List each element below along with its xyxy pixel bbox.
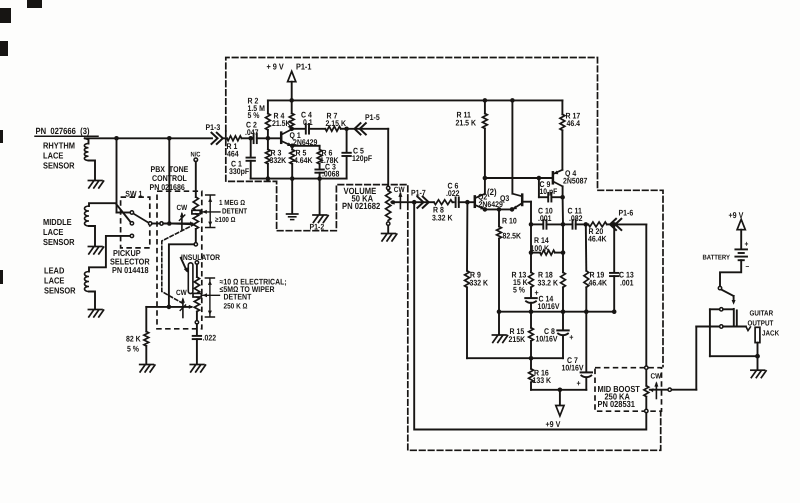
- wire battery negative: [720, 260, 741, 286]
- supply arrow +9V: [288, 71, 296, 100]
- node C11 left: [561, 222, 566, 227]
- label battery plus: [745, 239, 749, 248]
- node C1 branch: [248, 136, 253, 141]
- wire R16 to +9V rail: [531, 382, 586, 390]
- node tone wiper junction: [167, 221, 172, 226]
- capacitor C4: [306, 124, 309, 134]
- label Q1 2N6429: [290, 131, 318, 147]
- label R10 82.5K: [502, 217, 521, 241]
- wire emitter branch: [292, 146, 319, 150]
- svg-text:.001: .001: [620, 278, 634, 287]
- wire R2 to R3: [267, 130, 269, 149]
- wire +9V rail: [268, 99, 563, 101]
- node rail C3: [317, 176, 322, 181]
- label C7 10/16V: [562, 356, 585, 373]
- label C6 .022: [446, 182, 460, 198]
- label battery minus: [746, 262, 750, 271]
- label R11 21.5K: [456, 111, 477, 128]
- label C11 .082: [568, 207, 583, 224]
- capacitor C1: [247, 138, 255, 178]
- svg-text:P1-1: P1-1: [296, 62, 312, 72]
- jack sleeve bracket: [709, 309, 711, 356]
- battery cells: [735, 249, 747, 260]
- jack switch upper terminal: [720, 308, 723, 311]
- scan artifact marks: [0, 0, 42, 284]
- resistor R5: [290, 150, 295, 165]
- node emitter right: [510, 207, 515, 212]
- label R9 332K: [470, 271, 489, 288]
- wire pot to bottom terminal: [195, 229, 197, 243]
- capacitor C3: [315, 164, 323, 179]
- terminal battery switch: [718, 286, 721, 289]
- arrow battery to jack: [721, 290, 735, 305]
- node R11 rail: [483, 98, 488, 103]
- label C9 10pF: [540, 180, 558, 196]
- wire R10 to mid rail: [498, 239, 500, 312]
- label R16 133K: [533, 368, 552, 385]
- ground P1-2: [313, 215, 328, 222]
- svg-text:+ 9 V: + 9 V: [267, 62, 284, 72]
- label C1 330pF: [229, 160, 249, 177]
- node mid rail C13: [612, 309, 617, 314]
- switch SW1 blade: [133, 214, 148, 223]
- label volume 50KA: [342, 186, 380, 211]
- svg-text:215K: 215K: [509, 335, 526, 344]
- capacitor C6: [456, 197, 459, 207]
- label R8 3.32K: [432, 206, 453, 223]
- detent marker 250K: [193, 293, 201, 297]
- node R16 top: [529, 356, 534, 361]
- connector P1-7: [417, 197, 428, 208]
- svg-text:P1-7: P1-7: [411, 189, 426, 198]
- label C13 .001: [619, 271, 634, 288]
- svg-text:+: +: [745, 239, 749, 248]
- arrow CW tone lower: [180, 297, 185, 317]
- svg-text:5 %: 5 %: [248, 111, 261, 120]
- wire N/C to pot: [195, 162, 197, 197]
- wire emitter bus: [485, 208, 512, 210]
- wire C2 to base: [257, 137, 281, 139]
- resistor R1: [227, 136, 242, 141]
- label R14 100K: [531, 236, 550, 253]
- resistor R18: [561, 253, 566, 288]
- svg-text:P1-5: P1-5: [365, 113, 380, 122]
- terminal N/C: [194, 158, 198, 162]
- wire lead to ground: [89, 292, 95, 309]
- svg-text:PN 014418: PN 014418: [112, 265, 149, 275]
- wire lower contact: [696, 326, 746, 328]
- svg-text:RHYTHM: RHYTHM: [43, 141, 75, 151]
- svg-text:SW 1: SW 1: [125, 189, 142, 198]
- wire volume to ground: [387, 225, 389, 232]
- svg-text:P1-3: P1-3: [206, 123, 221, 132]
- transistor Q2: [475, 194, 485, 210]
- svg-text:332K: 332K: [270, 156, 287, 165]
- label detent upper: [222, 207, 248, 216]
- capacitor C2: [254, 134, 257, 144]
- svg-text:464: 464: [227, 150, 239, 159]
- svg-text:120pF: 120pF: [352, 154, 372, 163]
- svg-text:DETENT: DETENT: [224, 293, 252, 302]
- svg-text:10/16V: 10/16V: [538, 302, 561, 311]
- wire tip to node: [757, 343, 759, 357]
- node Q2 base R9: [465, 200, 470, 205]
- supply arrow +9V lower: [556, 406, 564, 416]
- wire +9V stub: [559, 390, 561, 406]
- svg-text:3.32 K: 3.32 K: [432, 213, 453, 222]
- label +9V battery: [729, 210, 744, 220]
- jack tip contact arrow: [746, 327, 751, 331]
- jack tip terminal: [755, 327, 760, 342]
- wire R17 to Q4 emitter: [561, 130, 563, 170]
- svg-text:21.5K: 21.5K: [272, 119, 291, 128]
- node C5 P1-5: [344, 127, 349, 132]
- svg-text:P1-6: P1-6: [619, 209, 634, 218]
- wire R4 to collector: [291, 127, 293, 130]
- svg-text:33.2 K: 33.2 K: [538, 278, 559, 287]
- label P1-2: [310, 223, 325, 232]
- label 10 ohm electrical: [220, 278, 287, 287]
- svg-text:LEAD: LEAD: [44, 266, 64, 276]
- wire P1-6 to boost pot: [614, 224, 646, 366]
- wire Q2 collector: [484, 178, 486, 194]
- svg-text:BATTERY: BATTERY: [703, 255, 731, 262]
- svg-text:0.1: 0.1: [303, 118, 313, 127]
- ground 82K: [140, 365, 155, 372]
- wire node to P1-5: [347, 128, 389, 130]
- node 250K wiper junction: [167, 305, 172, 310]
- terminal boost bottom: [645, 409, 648, 412]
- svg-text:PN 021686: PN 021686: [150, 182, 186, 192]
- svg-text:CW: CW: [651, 371, 662, 380]
- label R17 46.4: [566, 112, 581, 129]
- svg-text:(2): (2): [487, 187, 497, 197]
- wire R5 to rail: [291, 164, 293, 179]
- capacitor C7: [577, 312, 593, 390]
- wiper arrow 1 MEG: [169, 221, 194, 225]
- label lead lace sensor: [44, 266, 76, 296]
- svg-text:OUTPUT: OUTPUT: [748, 319, 774, 328]
- label insulator: [181, 253, 220, 273]
- ground rhythm pickup: [88, 181, 103, 188]
- node +9V branch: [558, 388, 563, 393]
- wire R20 to P1-6: [607, 223, 614, 225]
- ground volume: [382, 234, 397, 241]
- wire R15 to node: [530, 341, 532, 358]
- wire middle to ground: [89, 226, 95, 246]
- wire Q3 collector: [511, 100, 513, 193]
- wire 250K to bottom terminal: [196, 312, 198, 321]
- label detent lower: [224, 293, 252, 302]
- connector P1-5: [355, 123, 366, 134]
- capacitor C8: [557, 312, 573, 359]
- wire R3 to rail: [267, 164, 269, 179]
- wire R7 to node: [341, 128, 347, 130]
- svg-text:+: +: [569, 332, 573, 342]
- label C8 10/16V: [536, 327, 559, 344]
- node R14 right: [561, 250, 566, 255]
- svg-text:–: –: [746, 262, 750, 271]
- label +9V P1-1: [267, 62, 312, 72]
- svg-text:.001: .001: [538, 214, 552, 223]
- svg-text:PN 021682: PN 021682: [342, 201, 380, 211]
- wire R1 to C2: [242, 137, 253, 139]
- svg-text:SENSOR: SENSOR: [43, 161, 75, 171]
- label 82K 5%: [126, 335, 141, 354]
- resistor R13: [529, 253, 534, 288]
- wire collector to C4: [292, 128, 305, 130]
- svg-text:82.5K: 82.5K: [503, 231, 522, 240]
- node mid rail R19: [584, 309, 589, 314]
- supply arrow battery: [737, 219, 745, 248]
- label R6 1.78K: [320, 149, 339, 165]
- node R20 left: [584, 222, 589, 227]
- resistor R15: [529, 312, 534, 341]
- wire R8 to C6: [452, 201, 453, 203]
- label C10 .001: [538, 207, 553, 224]
- wiper mid boost: [649, 388, 668, 392]
- wire wiper to jack: [672, 327, 697, 390]
- resistor 82K: [144, 332, 149, 347]
- label R7 2.15K: [326, 112, 347, 128]
- svg-text:+9 V: +9 V: [546, 419, 561, 429]
- wire switch pole: [152, 223, 160, 225]
- wire Q3 base: [523, 202, 531, 225]
- label C4 0.1: [301, 111, 313, 127]
- terminal boost top: [645, 366, 648, 369]
- label 250 K ohm: [224, 302, 248, 311]
- wire R18 to rail: [562, 287, 564, 311]
- wire 250K top: [196, 264, 198, 277]
- capacitor C11: [563, 220, 586, 229]
- svg-text:2.15 K: 2.15 K: [326, 119, 347, 128]
- label guitar output jack: [748, 309, 780, 338]
- svg-text:21.5 K: 21.5 K: [456, 118, 477, 127]
- svg-text:R 10: R 10: [502, 217, 517, 226]
- capacitor C10: [531, 220, 563, 229]
- wire upper contact: [710, 308, 733, 310]
- wire Q1 ground rail: [251, 178, 347, 180]
- svg-text:4.64K: 4.64K: [294, 156, 313, 165]
- node mid rail R18: [561, 309, 566, 314]
- svg-text:.047: .047: [245, 128, 259, 137]
- label CW boost: [651, 371, 662, 380]
- wire input to switch contact: [117, 138, 131, 212]
- wire boost bottom loop: [414, 202, 646, 429]
- label R3 332K: [270, 149, 287, 165]
- node base bias junction: [266, 136, 271, 141]
- svg-text:133 K: 133 K: [533, 376, 552, 385]
- dimension detent arrow lower: [202, 293, 220, 297]
- tone control dashed box: [157, 191, 202, 329]
- label C2 .047: [245, 121, 259, 137]
- resistor R17: [560, 100, 565, 130]
- label Q2 (2) Q3 2N6429: [478, 187, 510, 209]
- resistor R3: [266, 149, 271, 164]
- node Q1 collector: [289, 127, 294, 132]
- label approx 100 ohm: [215, 215, 236, 224]
- label +9V lower: [546, 419, 561, 429]
- detent marker 1 MEG: [192, 210, 200, 214]
- resistor R4: [289, 100, 294, 128]
- svg-text:100 K: 100 K: [531, 244, 550, 253]
- label P1-3: [206, 123, 221, 132]
- capacitor C9: [539, 178, 563, 202]
- resistor R7: [325, 126, 341, 131]
- resistor R10: [497, 209, 502, 238]
- insulator sleeve: [188, 263, 193, 294]
- resistor R16: [529, 358, 534, 382]
- svg-text:330pF: 330pF: [229, 167, 249, 176]
- node C9 branch: [537, 176, 542, 181]
- label R4 21.5K: [272, 112, 291, 128]
- label rhythm lace sensor: [43, 141, 75, 171]
- label PBX tone control: [150, 164, 189, 192]
- terminal boost wiper: [668, 388, 671, 391]
- label pickup selector: [110, 248, 150, 275]
- svg-text:LACE: LACE: [43, 151, 63, 161]
- arrow CW boost: [654, 381, 658, 398]
- connector P1-3: [212, 133, 223, 144]
- label CW volume: [394, 185, 405, 194]
- wire rail to ground: [498, 312, 500, 335]
- svg-text:MIDDLE: MIDDLE: [43, 217, 72, 227]
- inductor lead pickup coil: [85, 236, 131, 292]
- label R1 464: [227, 142, 239, 159]
- ground middle pickup: [88, 247, 103, 254]
- label CW tone upper: [177, 203, 188, 212]
- jack switch lower terminal: [720, 325, 723, 328]
- node C13 top: [612, 222, 617, 227]
- label N/C: [191, 152, 201, 159]
- label C5 120pF: [352, 147, 372, 163]
- svg-text:SENSOR: SENSOR: [43, 237, 75, 247]
- node jack ground: [755, 354, 760, 359]
- node Q3 rail: [510, 98, 515, 103]
- terminal volume top: [387, 186, 390, 189]
- wire cap to ground: [196, 339, 198, 363]
- capacitor C5: [342, 129, 350, 179]
- wiper volume: [391, 200, 415, 204]
- switch SW1 pole terminal: [149, 222, 152, 225]
- label mid boost: [598, 384, 641, 409]
- wire rail to earth: [291, 179, 293, 214]
- capacitor .022 tone: [193, 336, 201, 339]
- label R18 33.2K: [538, 271, 559, 288]
- label CW tone lower: [176, 288, 187, 297]
- resistor R20: [586, 222, 607, 227]
- label SW 1: [125, 189, 142, 198]
- ground mid rail: [492, 335, 507, 342]
- potentiometer mid boost: [644, 370, 649, 410]
- wire 1MEG bottom to 250K wiper: [169, 244, 194, 307]
- switch SW1 contact 2: [130, 222, 133, 225]
- label .022 tone: [203, 334, 217, 343]
- label C3 .0068: [322, 162, 340, 178]
- terminal 1 MEG bottom: [194, 243, 197, 246]
- switch SW1 output terminal: [160, 222, 163, 225]
- wire C4 to R7: [309, 128, 325, 130]
- wire rhythm to ground: [89, 161, 96, 180]
- potentiometer 250K upper half: [194, 277, 199, 293]
- label P1-6: [619, 209, 634, 218]
- svg-text:.022: .022: [203, 334, 217, 343]
- wire R11 to base node: [484, 129, 486, 179]
- wire rail to P1-2 ground: [319, 179, 321, 214]
- label 1 MEG ohm: [219, 198, 245, 207]
- switch SW1 contact 3: [130, 234, 133, 237]
- capacitor C14: [525, 287, 538, 311]
- svg-text:5 %: 5 %: [127, 345, 140, 354]
- svg-text:.082: .082: [569, 214, 583, 223]
- svg-text:JACK: JACK: [762, 328, 780, 337]
- wire R9 bottom rail: [467, 357, 563, 359]
- gang link dashed line: [162, 224, 195, 303]
- node mid rail C14: [529, 309, 534, 314]
- svg-text:250 K Ω: 250 K Ω: [224, 302, 248, 311]
- wire C6 to Q2 base: [459, 201, 475, 203]
- wire pickup bus: [85, 137, 227, 139]
- label R2 1.5M 5%: [248, 97, 266, 121]
- label P1-7: [411, 189, 426, 198]
- potentiometer 1 MEG upper half: [193, 197, 198, 210]
- svg-text:5 %: 5 %: [513, 286, 526, 295]
- node mid rail R10: [497, 309, 502, 314]
- node Q1 emitter: [290, 144, 295, 149]
- switch SW1 contact 1: [130, 211, 133, 214]
- label middle lace sensor: [43, 217, 75, 247]
- svg-text:1 MEG Ω: 1 MEG Ω: [219, 198, 245, 207]
- svg-text:10/16V: 10/16V: [536, 335, 559, 344]
- node pickup bus to switch branch: [114, 136, 119, 141]
- label C14 10/16V: [538, 294, 561, 311]
- jack switch bars: [734, 309, 737, 327]
- node volume wiper feedback: [412, 200, 417, 205]
- wire switch to tone wiper: [163, 223, 192, 225]
- transistor Q4: [553, 170, 563, 197]
- label R13 15K 5%: [512, 271, 528, 295]
- svg-text:2N5087: 2N5087: [563, 177, 588, 186]
- inductor rhythm pickup coil: [84, 138, 88, 160]
- preamp dashed enclosure left-bottom: [226, 131, 661, 450]
- label 5M to wiper: [220, 285, 275, 294]
- node Q4 collector: [560, 195, 565, 200]
- svg-text:.0068: .0068: [322, 170, 340, 179]
- svg-text:SENSOR: SENSOR: [44, 286, 76, 296]
- label R15 215K: [509, 327, 526, 344]
- node R10 top: [497, 207, 502, 212]
- SW1 dashed box: [121, 197, 150, 248]
- resistor R2: [266, 100, 271, 130]
- node Q4 base line: [483, 176, 488, 181]
- ground Q1 stage: [287, 214, 298, 220]
- svg-text:10/16V: 10/16V: [562, 363, 585, 372]
- ground lead pickup: [88, 310, 103, 317]
- svg-text:+: +: [577, 378, 581, 388]
- resistor R11: [483, 100, 488, 128]
- svg-text:CW: CW: [177, 203, 188, 212]
- wire 250K bottom to cap: [196, 324, 198, 335]
- label BATTERY: [703, 255, 731, 262]
- dimension 1 MEG: [206, 195, 215, 228]
- arrow CW tone upper: [179, 212, 184, 230]
- arrow CW volume: [398, 192, 402, 209]
- transistor Q1: [281, 129, 292, 146]
- svg-text:PN 028531: PN 028531: [598, 399, 636, 409]
- capacitor C13: [610, 224, 618, 311]
- wire Q4 collector down: [562, 197, 564, 224]
- svg-text:LACE: LACE: [44, 276, 64, 286]
